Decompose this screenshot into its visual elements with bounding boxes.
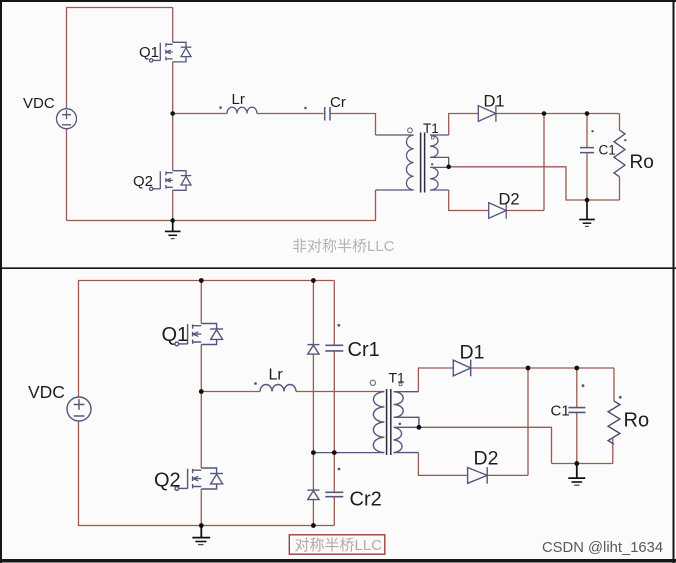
transformer T1 bottom : primary winding [373, 392, 384, 453]
capacitor C1 bottom [568, 408, 585, 413]
svg-text:Ro: Ro [630, 152, 654, 173]
ground top circuit output [579, 200, 595, 226]
transformer T1 top : core [421, 133, 425, 193]
svg-text:Cr2: Cr2 [350, 489, 382, 511]
transistor Q1 top (MOSFET with body diode) [150, 42, 192, 62]
wire main rail segments [172, 8, 174, 221]
wire output top rail [471, 367, 614, 369]
polarity dot Cr2 [338, 468, 341, 471]
wire center tap to output return [419, 427, 613, 463]
ground bottom circuit main [192, 526, 210, 545]
svg-text:Cr: Cr [330, 94, 346, 111]
wire Lr to Cr [257, 113, 324, 115]
polarity dot secondary lower bottom [399, 423, 402, 426]
wire left rail lower [66, 129, 68, 221]
wire Lr to primary top [296, 391, 384, 393]
polarity dot Ro bottom [619, 396, 622, 399]
polarity dot C1 top [591, 130, 593, 132]
inductor Lr bottom [260, 385, 296, 392]
wire mid node to Lr [173, 113, 227, 115]
polarity dot Cr1 [337, 324, 340, 327]
svg-text:Q2: Q2 [154, 470, 181, 492]
transformer T1 top : primary leads [376, 135, 414, 190]
svg-text:CSDN @liht_1634: CSDN @liht_1634 [542, 540, 663, 556]
divider line between circuits [0, 267, 676, 269]
polarity square secondary bottom [399, 383, 402, 386]
diode D1 top [478, 105, 496, 122]
clamp diode upper [307, 345, 319, 355]
svg-text:对称半桥LLC: 对称半桥LLC [295, 537, 383, 554]
transistor Q2 top (MOSFET with body diode) [150, 171, 192, 191]
VDC source top [57, 109, 77, 129]
wire main rail segments [200, 281, 202, 526]
svg-text:非对称半桥LLC: 非对称半桥LLC [292, 238, 395, 255]
node mid switch bottom [199, 389, 204, 394]
node bottom rail at Q2 [199, 523, 204, 528]
resistor Ro bottom [608, 401, 620, 444]
wire center tap to output return [449, 167, 620, 200]
node ground junction top [170, 218, 175, 223]
node D1 cathode junction [542, 111, 547, 116]
svg-text:T1: T1 [423, 121, 439, 136]
node center tap top [446, 165, 451, 170]
wire Ro leads [619, 114, 621, 201]
polarity circle primary bottom [370, 380, 375, 385]
svg-text:VDC: VDC [23, 95, 55, 112]
polarity circle primary top [408, 128, 413, 133]
svg-text:Q1: Q1 [162, 324, 189, 346]
transistor Q2 bottom (MOSFET with body diode) [175, 468, 223, 490]
svg-text:Q1: Q1 [139, 44, 159, 61]
transformer T1 bottom : secondary windings [394, 392, 404, 453]
polarity dot Lr top [219, 106, 222, 109]
wire top rail + left rail upper [79, 281, 335, 398]
diode D1 bottom [453, 360, 470, 377]
wire C1 leads bottom [576, 368, 578, 464]
polarity dot Cr top [304, 107, 307, 110]
polarity dot C1 bottom [582, 384, 585, 387]
capacitor Cr2 [325, 492, 343, 496]
diode D2 bottom [468, 467, 488, 484]
wire resonant cap branch [333, 281, 335, 526]
wire secondary bottom to D2 anode [449, 190, 489, 211]
wire Cr to primary top [331, 114, 376, 136]
svg-text:D2: D2 [499, 191, 520, 209]
node top rail at diode branch [311, 278, 316, 283]
transistor Q1 bottom (MOSFET with body diode) [175, 324, 223, 346]
svg-text:C1: C1 [599, 143, 616, 158]
capacitor Cr top [325, 107, 330, 121]
wire secondary top to D1 [418, 368, 453, 392]
wire bottom rail to primary return [67, 190, 376, 221]
polarity dot Lr bottom [254, 382, 257, 385]
wire left rail lower + bottom rail [79, 421, 335, 526]
transformer T1 top : secondary windings [430, 135, 438, 190]
wire C1 leads [586, 114, 588, 201]
node C1 top junction [585, 111, 590, 116]
wire D2 cathode up to output [487, 368, 528, 475]
svg-text:Lr: Lr [232, 91, 245, 108]
svg-text:C1: C1 [551, 403, 570, 420]
svg-text:Lr: Lr [269, 367, 284, 384]
svg-text:Cr1: Cr1 [348, 339, 380, 361]
wire Ro leads bottom [613, 368, 614, 464]
node primary return at diode branch [311, 450, 316, 455]
resistor Ro top [614, 130, 625, 177]
wire secondary top to D1 [449, 114, 478, 136]
node top rail at Q1 [199, 278, 204, 283]
ground top circuit main [165, 221, 181, 239]
inductor Lr top [227, 107, 257, 113]
label circuit title bottom box [289, 535, 385, 554]
ground bottom circuit output [568, 464, 585, 486]
wire top rail + left rail upper [67, 8, 173, 109]
transformer T1 bottom : secondary leads [394, 392, 419, 453]
polarity dot Ro top [624, 139, 626, 141]
svg-text:Ro: Ro [624, 410, 650, 432]
diode D2 top [489, 202, 507, 219]
wire output top rail [496, 113, 620, 115]
node C1 bottom junction bottom [574, 461, 579, 466]
transformer T1 top : secondary leads [430, 135, 449, 190]
node D1 cathode junction bottom [526, 366, 531, 371]
node mid switch top [170, 111, 175, 116]
node primary return at cap branch [332, 450, 337, 455]
polarity square secondary top [432, 136, 435, 139]
wire mid node to Lr [201, 391, 260, 393]
capacitor C1 top [580, 148, 594, 153]
svg-text:Q2: Q2 [133, 173, 153, 190]
polarity dot secondary lower [431, 163, 433, 165]
wire D2 cathode [506, 210, 544, 212]
node C1 top junction bottom [574, 366, 579, 371]
node C1 bottom junction [585, 198, 590, 203]
node bottom rail at diode branch [311, 523, 316, 528]
svg-text:D2: D2 [474, 448, 499, 470]
svg-text:T1: T1 [389, 370, 406, 386]
svg-text:VDC: VDC [28, 382, 65, 402]
VDC source bottom [67, 397, 91, 421]
wire secondary bottom to D2 anode [418, 453, 467, 476]
transformer T1 top : primary winding [406, 135, 413, 190]
svg-text:D1: D1 [460, 342, 485, 364]
transformer T1 bottom : core [387, 389, 391, 455]
clamp diode lower [307, 490, 319, 500]
svg-text:D1: D1 [484, 93, 505, 111]
node center tap bottom [417, 425, 422, 430]
transformer T1 bottom : primary bottom lead [313, 452, 384, 454]
wire D1 junction down to D2 [543, 114, 545, 211]
wire clamp diode branch [312, 281, 314, 526]
capacitor Cr1 [325, 345, 343, 351]
